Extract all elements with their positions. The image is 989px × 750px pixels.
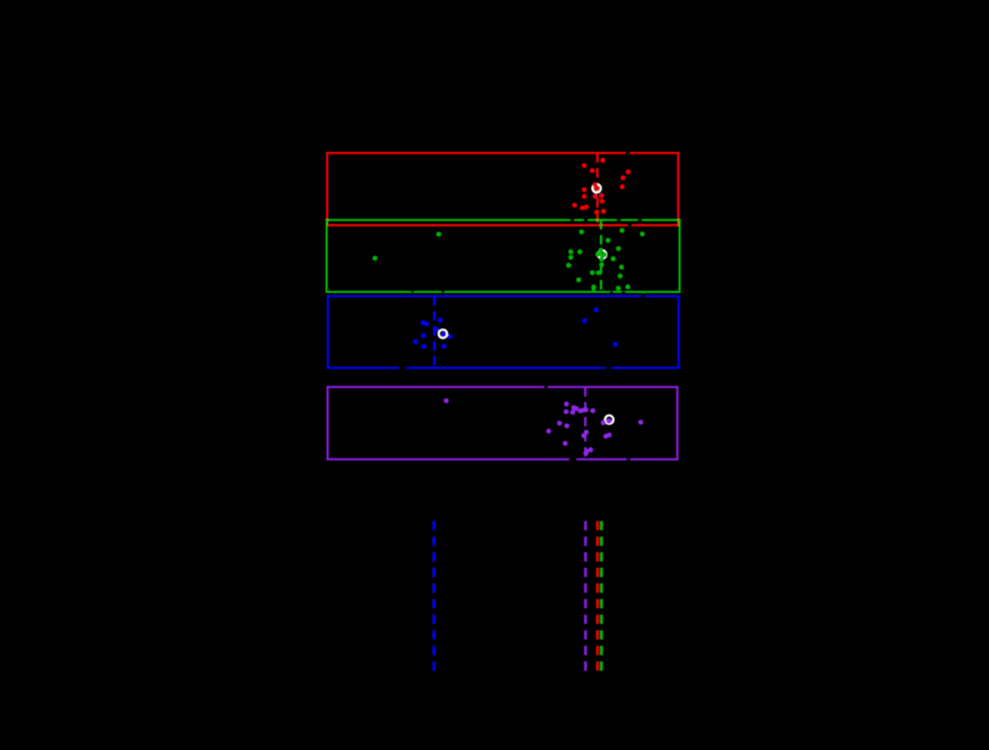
white ring marker purple field <box>605 415 613 423</box>
black overlay dots on purple box edges <box>544 385 631 461</box>
purple star dots <box>444 398 644 456</box>
purple center dashed line <box>584 387 586 459</box>
green star dots <box>373 228 645 291</box>
black overlay dots on green box top edge and red bottom edge <box>570 218 642 228</box>
red center dashed line <box>596 153 598 225</box>
white ring marker blue field <box>439 330 447 338</box>
blue star dots <box>413 307 618 349</box>
black overlay dots on green box bottom edge and blue top edge <box>411 289 646 299</box>
black overlay dots on red box top edge <box>626 151 631 156</box>
red star dots <box>572 158 631 215</box>
red lower dashed line <box>596 521 599 671</box>
white ring marker green field <box>598 250 606 258</box>
purple field box <box>328 387 678 459</box>
green lower dashed line <box>600 521 603 671</box>
white ring marker red field <box>592 184 600 192</box>
green center dashed line <box>600 220 602 292</box>
purple lower dashed line <box>584 521 587 671</box>
red field box <box>327 153 678 225</box>
black overlay dots on blue box bottom edge <box>398 366 611 370</box>
blue field box <box>328 296 679 368</box>
green triangle-down marker <box>591 289 596 293</box>
green field box <box>327 220 680 292</box>
blue lower dashed line <box>432 521 435 671</box>
blue center dashed line <box>433 296 436 368</box>
